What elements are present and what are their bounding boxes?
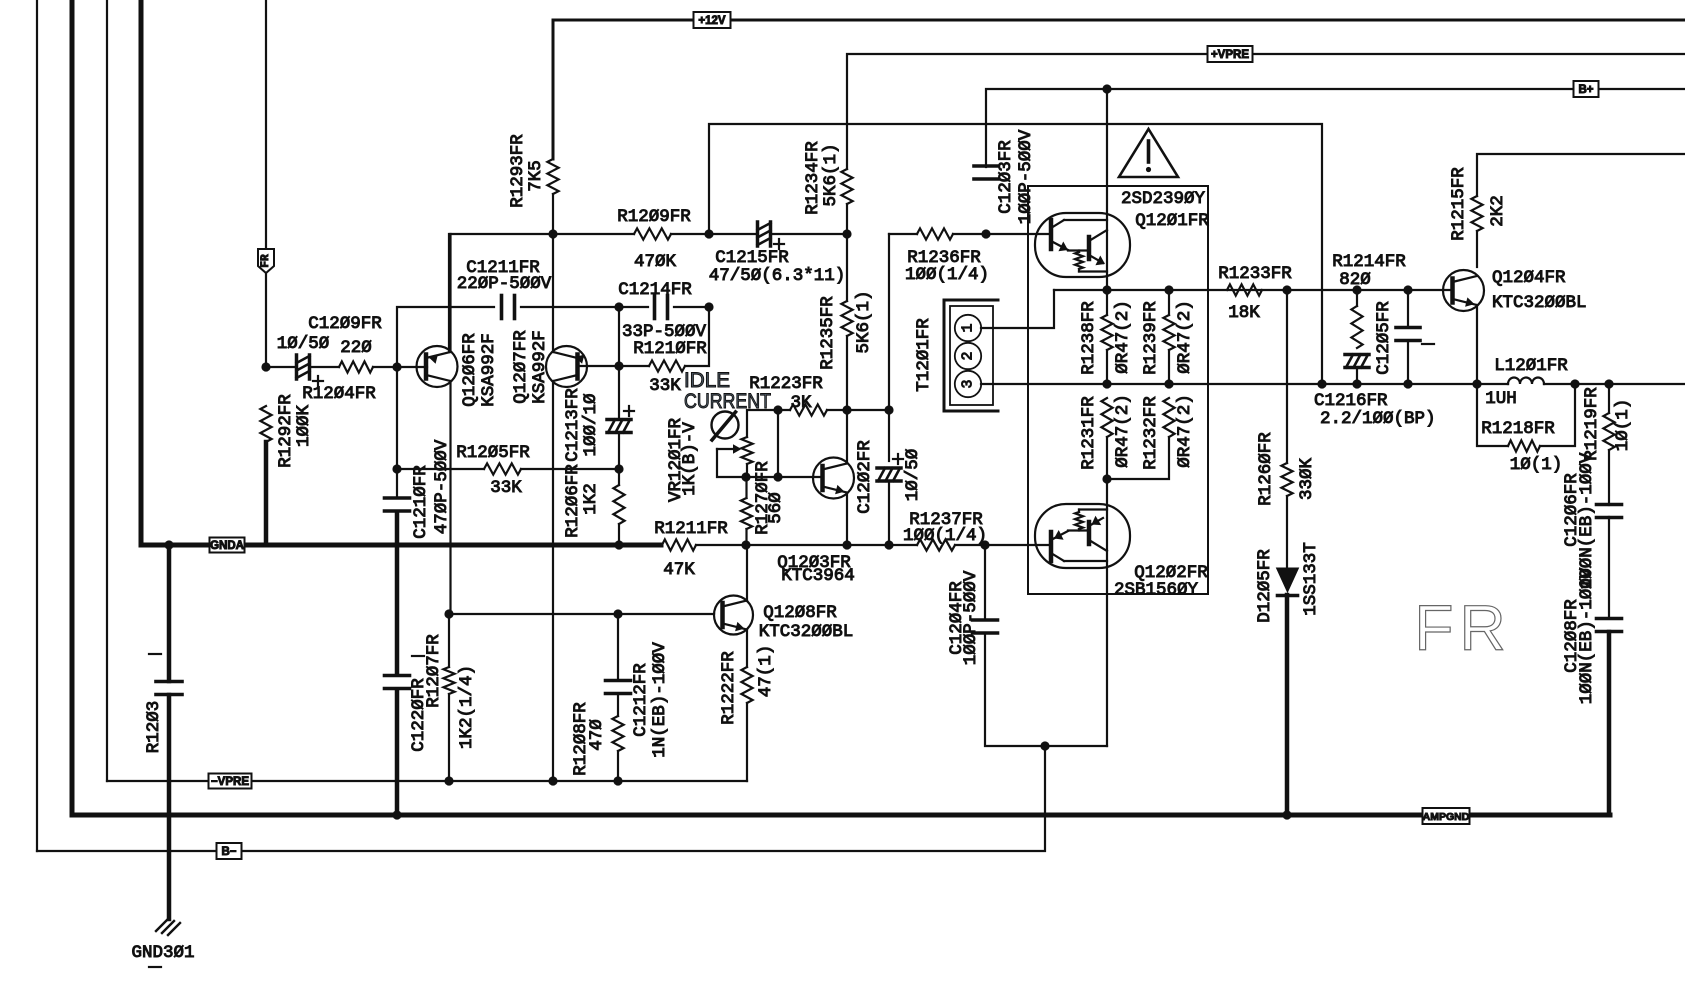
capacitor R1203 (series cap in GND branch) [156,680,182,684]
node 1408/384 [1403,379,1412,388]
svg-text:R1234FR: R1234FR [803,141,823,215]
svg-text:R12Ø6FR: R12Ø6FR [563,464,583,538]
node 1357/384 [1352,379,1361,388]
svg-text:R1231FR: R1231FR [1079,396,1099,470]
svg-text:5K6(1): 5K6(1) [854,290,874,353]
svg-text:B+: B+ [1578,84,1593,96]
svg-text:R1238FR: R1238FR [1079,301,1099,375]
svg-text:1N(EB)-1ØØV: 1N(EB)-1ØØV [650,642,670,758]
svg-text:2SB156ØY: 2SB156ØY [1114,580,1199,600]
wire C1204 to B- link [985,633,1107,746]
svg-text:47ØK: 47ØK [634,252,677,272]
connector T1201FR inner frame [950,306,993,405]
svg-text:1ØØN(EB)-1ØØV: 1ØØN(EB)-1ØØV [1577,567,1597,704]
capacitor C1210FR [385,496,410,500]
svg-text:2K2: 2K2 [1488,195,1508,227]
label - under GND301 [149,966,161,968]
svg-text:2SD239ØY: 2SD239ØY [1121,189,1206,209]
resistor R1222FR [741,667,752,703]
svg-text:R1215FR: R1215FR [1449,167,1469,241]
node C1220/AMPGND [392,810,401,819]
wire C1206-C1208 [1608,517,1610,618]
wire R1218 right lead [1540,384,1575,446]
wire C1202 lower lead [888,481,890,545]
wire C1212 branch [617,614,619,679]
wire +VPRE R1234 branch [846,204,848,234]
wire y=307 line [397,307,494,367]
wire net GNDA horizontal (thick) [141,543,661,548]
node 1287/290 [1282,285,1291,294]
svg-text:Q12Ø7FR: Q12Ø7FR [511,330,531,404]
net tag AMPGND [1423,808,1470,824]
svg-text:33K: 33K [649,376,681,396]
wire Q1206 collector lead [449,381,451,614]
net tag B+ [1574,81,1599,97]
resistor R1210FR [649,360,685,371]
svg-text:47ØP-5ØØV: 47ØP-5ØØV [432,439,452,534]
svg-text:1Ø/5Ø: 1Ø/5Ø [903,449,923,502]
svg-text:22Ø: 22Ø [340,338,372,358]
node R1293 bottom [548,229,557,238]
ground GND301 symbol [156,919,180,935]
svg-text:GNDA: GNDA [210,540,244,552]
resistor R1292FR [260,406,271,442]
svg-text:1UH: 1UH [1485,389,1517,409]
svg-text:C12Ø3FR: C12Ø3FR [996,140,1016,214]
warning triangle [1119,129,1178,177]
wire Q1206 base lead [397,366,427,368]
svg-text:−VPRE: −VPRE [211,776,249,788]
svg-text:KTC32ØØBL: KTC32ØØBL [1492,293,1587,313]
net tag B- [217,843,242,859]
wire R1207 upper lead [448,614,450,667]
wire C1204 branch [984,545,986,620]
pot wiper bracket [717,449,746,477]
svg-text:ØR47(2): ØR47(2) [1175,300,1195,374]
svg-text:47Ø: 47Ø [587,719,607,751]
wire Q1207 collector lead [552,381,554,781]
capacitor C1216FR (electrolytic) [1345,355,1369,368]
resistor R1211FR [662,539,696,550]
svg-text:R1219FR: R1219FR [1582,387,1602,461]
svg-text:2.2/1ØØ(BP): 2.2/1ØØ(BP) [1320,409,1436,429]
diode D1205FR (1SS133T) [1277,568,1299,596]
wire R1270 lower lead [745,529,747,545]
polarity + of C1209FR [313,380,323,382]
wire upper feedback line y=124 [709,124,1322,384]
svg-text:1Ø/5Ø: 1Ø/5Ø [277,334,330,354]
svg-text:C1212FR: C1212FR [631,663,651,737]
wire R1223-Q1203 base link [777,410,779,477]
resistor R1237FR [917,539,955,550]
wire GND301 branch lower (thick) [167,695,172,919]
svg-text:KTC32ØØBL: KTC32ØØBL [759,622,854,642]
wire R1214 top lead [1356,290,1358,306]
node D1205/AMPGND [1282,810,1291,819]
node Q1207 collector at -VPRE [548,776,557,785]
node 618/614 [613,609,622,618]
wire Q1207 base lead [577,365,619,367]
svg-text:C12Ø2FR: C12Ø2FR [855,440,875,514]
node 1575/384 [1570,379,1579,388]
svg-text:R12Ø9FR: R12Ø9FR [617,207,691,227]
wire R1222 to -VPRE [746,703,748,781]
svg-text:R1222FR: R1222FR [719,651,739,725]
svg-text:C1214FR: C1214FR [618,280,692,300]
svg-text:+12V: +12V [698,15,726,27]
svg-text:R1293FR: R1293FR [508,134,528,208]
node 889/410 [884,405,893,414]
resistor R1207FR [443,667,454,694]
svg-text:R12Ø4FR: R12Ø4FR [302,384,376,404]
svg-text:47(1): 47(1) [756,645,776,698]
capacitor C1214FR [653,296,657,319]
node 1169/384 [1164,379,1173,388]
svg-text:2: 2 [960,351,977,360]
wire C1213 to R1206 [618,433,620,485]
svg-text:1K(B)-V: 1K(B)-V [680,422,700,496]
wire R1219-C1206 [1608,450,1610,505]
node C1203 bottom [981,229,990,238]
connector pin 1 circle [955,315,981,341]
resistor R1232FR [1163,398,1174,437]
resistor R1270FR [741,498,752,529]
capacitor C1211FR [500,296,504,319]
wire pin1 to drive line [981,290,1054,328]
svg-text:R12Ø5FR: R12Ø5FR [456,443,530,463]
svg-text:R12Ø3: R12Ø3 [144,701,164,754]
node R1208 bottom [613,776,622,785]
resistor R1238FR [1101,315,1112,350]
resistor R1236FR [917,228,953,239]
wire R1215 lower lead [1476,231,1478,267]
svg-text:Q12Ø1FR: Q12Ø1FR [1135,211,1209,231]
wire D1205 to AMPGND (thick) [1285,595,1290,815]
capacitor C1203FR [974,164,998,168]
wire +12V rail [553,20,1685,159]
wire drive line y=290 [1054,289,1453,291]
svg-text:Q12Ø4FR: Q12Ø4FR [1492,268,1566,288]
svg-text:Q12Ø6FR: Q12Ø6FR [460,333,480,407]
tag FR (input net tag) [258,249,274,273]
svg-text:1: 1 [960,323,977,332]
node pot bottom junction [741,472,750,481]
wire GNDA thin cont. [696,544,917,546]
wire idle node line y=410 [747,410,790,437]
svg-text:R1292FR: R1292FR [276,394,296,468]
wire Q1207 base link [618,307,620,366]
node R1207 top [444,609,453,618]
node GNDA-GND301 junction [164,540,173,549]
wire R1236 right lead [953,233,986,235]
wire R1206 to GNDA [618,524,620,545]
node Q1207 base [614,361,623,370]
svg-text:IDLE: IDLE [684,369,730,392]
wire R1209 to 709 [671,233,756,235]
wire C1212-R1208 [617,695,619,716]
transistor Q1206FR (KSA992F pnp) [417,346,458,387]
polarity + of C1202FR [893,458,903,460]
wire R1218 parallel path [1477,384,1508,446]
svg-text:ØR47(2): ØR47(2) [1113,394,1133,468]
wire R1235 branch upper [846,234,848,301]
wire R1231 lower lead [1106,437,1108,479]
svg-text:C12Ø5FR: C12Ø5FR [1374,301,1394,375]
wire Q1202 emitter drop [1106,479,1108,746]
wire C1202 branch [888,410,890,461]
adjust screwdriver symbol [712,412,739,441]
capacitor C1213FR (electrolytic) [607,420,631,433]
capacitor C1205FR [1396,326,1420,330]
wire Q1203 collector lead [846,410,848,464]
svg-text:7K5: 7K5 [526,160,546,192]
node R1207 bottom [444,776,453,785]
svg-text:56Ø: 56Ø [766,492,786,524]
node 619/469 [614,464,623,473]
wire C1211-C1214 [521,306,648,308]
wire B+ rail [986,89,1685,167]
net tag -VPRE [209,774,252,789]
svg-text:C1213FR: C1213FR [563,388,583,462]
wire C1220 to AMPGND (thick) [395,690,400,815]
wire R1270 upper lead [745,477,747,498]
wire R1237 to Q1202 base [955,544,1049,546]
node 1107/384 [1102,379,1111,388]
wire R1260-D1205 [1286,496,1288,568]
svg-text:1ØØP-5ØØV: 1ØØP-5ØØV [961,570,981,665]
wire R1219 branch [1608,384,1610,413]
wire net B- horizontal [37,746,1045,851]
wire 553-634 [553,233,634,235]
svg-text:GND3Ø1: GND3Ø1 [131,943,194,963]
svg-text:+VPRE: +VPRE [1211,49,1249,61]
wire net AMPGND horizontal (thick) [72,813,1610,818]
wire bus AMPGND vertical (thick) [70,0,75,815]
wire Q1203 base wire [746,476,822,478]
wire net -VPRE horizontal [107,780,747,782]
capacitor C1209FR (electrolytic) [297,355,310,379]
wire C1214 right [674,306,709,308]
wire C1205 leads [1407,290,1409,384]
wire Q1208 collector lead [746,545,748,601]
svg-text:T12Ø1FR: T12Ø1FR [914,318,934,392]
resistor R1214FR (vertical) [1351,306,1362,348]
svg-text:C121ØFR: C121ØFR [411,465,431,539]
wire R1235 to idle node [846,336,848,410]
node 1357/290 [1352,285,1361,294]
wire R1204 to node [373,366,397,368]
wire C1215 to 847 [771,233,847,235]
wire R1236 branch [888,234,890,410]
svg-text:3: 3 [960,379,977,388]
svg-text:1ØØP-5ØØV: 1ØØP-5ØØV [1016,129,1036,224]
resistor R1205FR [484,463,521,474]
node 847/410 [842,405,851,414]
resistor R1239FR [1163,315,1174,350]
connector pin 2 circle [955,343,981,369]
wire C1209-R1204 stub [310,366,339,368]
transistor Q1208FR (KTC3200BL npn) [714,596,753,635]
svg-text:R121ØFR: R121ØFR [633,339,707,359]
wire y=234 left corner [449,234,553,352]
node 619/307 [614,302,623,311]
node 709/307 [704,302,713,311]
svg-text:47K: 47K [663,560,695,580]
svg-text:C1215FR: C1215FR [715,248,789,268]
svg-text:R12Ø7FR: R12Ø7FR [424,634,444,708]
svg-text:C1216FR: C1216FR [1314,391,1388,411]
svg-text:R126ØFR: R126ØFR [1256,432,1276,506]
wire R1236 left lead [889,233,917,235]
wire Q1207 emitter lead [552,234,554,352]
node 1477/384 [1472,379,1481,388]
capacitor C1206FR [1597,503,1622,507]
svg-text:1K2(1/4): 1K2(1/4) [457,665,477,749]
capacitor C1208FR [1597,617,1622,621]
resistor R1260FR [1281,463,1292,496]
svg-text:18K: 18K [1228,303,1260,323]
resistor R1219FR [1603,413,1614,450]
resistor R1234FR [841,169,852,204]
wire R1260 branch upper [1286,290,1288,463]
wire Q1201 collector riser [1106,89,1108,290]
wire Q1206 emitter lead [449,234,451,352]
node B- riser junction [1040,741,1049,750]
resistor R1293FR [547,159,558,194]
resistor R1215FR [1471,196,1482,231]
resistor R1204FR [339,361,373,372]
svg-text:C12Ø9FR: C12Ø9FR [308,314,382,334]
transistor Q1204FR (KTC3200BL npn) [1443,270,1484,311]
wire bus -VPRE vertical [106,0,108,781]
wire output top line y=154 [1477,154,1685,196]
svg-text:1ØØ(1/4): 1ØØ(1/4) [903,526,987,546]
module box (output darlingtons) [1028,186,1208,594]
svg-text:KTC3964: KTC3964 [781,566,855,586]
node 1323/384 [1317,379,1326,388]
wire R1205 right [521,468,619,470]
svg-text:FR: FR [1414,592,1511,664]
node 1169/290 [1164,285,1173,294]
svg-text:CURRENT: CURRENT [684,390,771,413]
connector T1201FR outer frame [944,300,998,411]
transistor Q1201FR (2SD2390Y darlington) [1035,213,1130,277]
net tag +VPRE [1208,46,1253,62]
resistor R1231FR [1101,398,1112,437]
node C1202 bottom [884,540,893,549]
resistor R1218FR [1508,440,1540,451]
wire R1293 branch [552,194,554,234]
svg-text:Q12Ø8FR: Q12Ø8FR [763,603,837,623]
capacitor C1204FR [973,618,998,622]
svg-text:KSA992F: KSA992F [479,333,499,407]
svg-text:1ØØ(1/4): 1ØØ(1/4) [905,265,989,285]
capacitor C1215FR (electrolytic) [758,222,771,246]
wire C1209 left stub [270,366,296,368]
svg-text:1SS133T: 1SS133T [1301,542,1321,616]
wire R1205 left [397,468,484,470]
polarity - of C1220FR [412,655,424,657]
svg-text:22ØP-5ØØV: 22ØP-5ØØV [457,274,552,294]
node B+ junction [1102,84,1111,93]
potentiometer VR1201FR body [741,437,752,464]
capacitor C1202FR (electrolytic) [877,468,901,481]
wire input FR line to node [265,272,267,367]
resistor R1233FR [1227,284,1262,295]
svg-text:R1239FR: R1239FR [1141,301,1161,375]
node Q1201 emitter junction [1102,285,1111,294]
svg-text:1ØØ/1Ø: 1ØØ/1Ø [581,393,601,456]
node Q1202 base node [1102,474,1111,483]
node 397/469 [392,464,401,473]
svg-text:1ØØK: 1ØØK [294,405,314,448]
resistor R1223FR [790,404,827,415]
capacitor C1212FR [606,679,631,683]
svg-text:R1214FR: R1214FR [1332,252,1406,272]
resistor R1209FR [634,228,671,239]
resistor R1206FR [613,485,624,524]
svg-text:1Ø(1): 1Ø(1) [1613,399,1633,452]
svg-text:47/5Ø(6.3*11): 47/5Ø(6.3*11) [709,266,846,286]
svg-text:33ØK: 33ØK [1297,458,1317,501]
capacitor C1220FR [385,674,410,678]
node 619/545 [614,540,623,549]
wire C1210-C1220 (thick) [395,512,400,674]
wire Q1201 base wire [986,233,1049,235]
wire R1207 lower lead [448,694,450,781]
wire Q1203 emitter lead [846,493,848,546]
svg-text:R1232FR: R1232FR [1141,396,1161,470]
wire C1208 to AMPGND (thick) [1607,632,1612,815]
inductor L1201FR [1508,378,1544,384]
wire R1210 right lead [685,307,709,366]
wire R1232 link to emitter node [1107,437,1169,479]
wire output line y=384 [981,383,1508,385]
wire GND301 branch upper (thick) [167,545,172,681]
wire R1292 lower (thick) [264,442,269,545]
wire y=614 to Q1208 base [449,613,714,615]
wire C1216 lower lead [1356,368,1358,384]
wire R1223 right lead [827,409,889,411]
svg-text:82Ø: 82Ø [1339,270,1371,290]
svg-text:KSA992F: KSA992F [530,330,550,404]
node Q1203 emitter at y=545 [842,540,851,549]
transistor Q1202FR (2SB1560Y darlington) [1035,504,1130,568]
node R1237/C1204 [980,540,989,549]
node 778/477 [773,472,782,481]
svg-text:AMPGND: AMPGND [1423,811,1470,823]
wire R1239 leads [1168,290,1170,384]
wire input FR line upper [265,0,267,250]
svg-text:B−: B− [221,846,236,858]
wire R1238 leads [1106,290,1108,384]
svg-text:FR: FR [260,254,272,268]
net tag GNDA [210,538,245,553]
node 1408/290 [1403,285,1412,294]
pot wiper arrow [717,444,742,454]
node FR input junction [261,362,270,371]
wire R1210 left lead [619,365,649,367]
svg-text:R1235FR: R1235FR [818,296,838,370]
wire after L1201 [1544,383,1685,385]
wire R1208 to -VPRE [617,751,619,781]
polarity - of C1205 [1422,343,1434,345]
polarity + of C1213FR [624,410,634,412]
wire pot bottom lead [746,464,748,477]
wire Q1208 emitter lead [746,630,748,668]
wire bus B- vertical [36,0,38,851]
resistor R1208FR [612,716,623,751]
